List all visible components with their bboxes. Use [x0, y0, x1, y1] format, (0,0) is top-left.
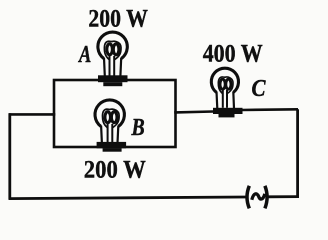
svg-text:B: B	[131, 115, 145, 141]
junction: left connector meets parallel box left side	[53, 113, 56, 116]
svg-text:C: C	[252, 76, 267, 102]
wire: outer left vertical	[8, 113, 11, 199]
lamp C (bulb)	[211, 68, 242, 117]
wire: bottom, right of source	[268, 195, 298, 198]
svg-text:200 W: 200 W	[84, 155, 146, 184]
wire: series branch, box to lamp C	[176, 110, 214, 114]
svg-text:200 W: 200 W	[88, 3, 148, 32]
wire: series branch, lamp C to right vertical	[242, 108, 299, 111]
svg-text:400 W: 400 W	[203, 38, 263, 67]
wire: outer right vertical	[296, 109, 299, 198]
svg-text:A: A	[77, 42, 91, 68]
wire: parallel box (top/bottom/left/right of inner rectangle)	[54, 80, 176, 147]
wire: left connector from outer loop to parallel box	[9, 113, 54, 116]
AC source (~)	[247, 186, 267, 209]
lamp B (bulb)	[95, 100, 126, 152]
wire: bottom, left of source	[9, 197, 246, 199]
lamp A (bulb)	[98, 32, 128, 86]
junction: series branch meets parallel box right side	[174, 111, 177, 114]
